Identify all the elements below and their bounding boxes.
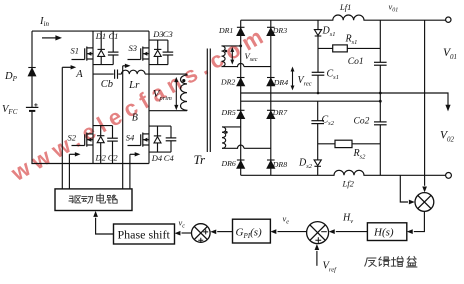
svg-text:H(s): H(s) <box>373 227 394 239</box>
svg-text:D1: D1 <box>95 31 106 41</box>
svg-text:DR7: DR7 <box>272 108 288 117</box>
svg-text:Co1: Co1 <box>348 57 364 67</box>
svg-text:DR5: DR5 <box>221 108 236 117</box>
svg-text:A: A <box>75 69 83 80</box>
svg-text:S3: S3 <box>129 43 138 53</box>
svg-text:DR6: DR6 <box>221 159 236 168</box>
svg-text:DR8: DR8 <box>272 160 287 169</box>
svg-text:D2: D2 <box>95 152 107 162</box>
svg-text:C1: C1 <box>109 31 119 41</box>
svg-text:Lf1: Lf1 <box>339 2 351 12</box>
svg-text:DR2: DR2 <box>220 78 235 87</box>
svg-text:S1: S1 <box>71 46 80 56</box>
svg-text:C2: C2 <box>108 152 119 162</box>
svg-text:S4: S4 <box>126 133 135 143</box>
svg-text:DR1: DR1 <box>218 26 233 35</box>
svg-text:DR4: DR4 <box>273 78 288 87</box>
svg-text:B: B <box>132 112 138 123</box>
svg-text:D4: D4 <box>151 153 163 163</box>
svg-text:DR3: DR3 <box>272 26 287 35</box>
svg-text:C3: C3 <box>163 29 173 39</box>
svg-text:Cb: Cb <box>101 79 113 90</box>
svg-text:C4: C4 <box>164 153 175 163</box>
svg-text:Lf2: Lf2 <box>342 179 355 189</box>
svg-text:Co2: Co2 <box>354 117 370 127</box>
svg-text:Tr: Tr <box>194 152 207 167</box>
svg-text:Phase shift: Phase shift <box>118 228 171 242</box>
svg-text:Lr: Lr <box>128 79 140 91</box>
svg-text:S2: S2 <box>68 133 77 143</box>
